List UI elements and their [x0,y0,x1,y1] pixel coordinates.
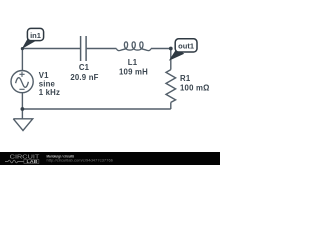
voltage source V1 (sine symbol with + and - marks) [11,71,33,93]
svg-text:1 kHz: 1 kHz [39,88,60,97]
junction dot node out1 [169,47,173,51]
svg-text:http://circuitlab.com/c/94d477: http://circuitlab.com/c/94d477c3776b [47,159,114,163]
svg-text:LAB: LAB [27,159,38,164]
svg-text:out1: out1 [178,41,194,50]
node in1 flag pointer tail [22,38,36,49]
svg-text:C1: C1 [79,63,90,72]
wire right vertical (out1 node to R1 to bottom rail) [170,49,172,110]
wire left vertical (in1 node to V1 to ground node) [21,49,23,110]
svg-text:in1: in1 [30,31,41,40]
svg-text:R1: R1 [180,74,191,83]
svg-text:109 mH: 109 mH [119,67,148,76]
wire bottom horizontal (return rail) [22,108,170,110]
svg-text:L1: L1 [128,58,138,67]
node in1 flag [27,28,43,40]
junction dot ground node [21,107,25,111]
node out1 flag [175,39,197,52]
ground symbol (downward triangle) [13,109,32,131]
junction dot node in1 [21,47,24,50]
resistor R1 (vertical zigzag) [166,70,176,103]
svg-text:Marioluigi / circuit6: Marioluigi / circuit6 [47,154,75,158]
node out1 flag pointer tail [169,48,184,61]
svg-text:100 mΩ: 100 mΩ [180,84,210,93]
footer bar [0,152,220,165]
inductor L1 (three-loop coil) [116,42,151,51]
CircuitLab logo waveform and LAB box [5,159,39,164]
capacitor C1 (two plates) [81,36,87,61]
svg-text:sine: sine [39,79,56,88]
wire top horizontal (in1 node to C1, C1 to L1, L1 to out1 node) [22,48,170,50]
svg-text:20.9 nF: 20.9 nF [70,73,98,82]
